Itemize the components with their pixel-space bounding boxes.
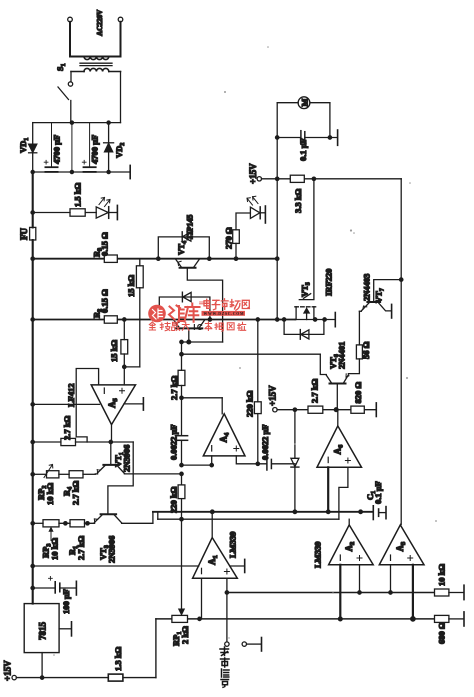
wire RP1 wiper <box>181 519 183 609</box>
wire A5 minus from rail <box>33 403 100 405</box>
svg-text:15 kΩ: 15 kΩ <box>126 275 136 297</box>
wire VT1 collector step to VT3 <box>108 442 133 514</box>
resistor 270 branch <box>233 213 251 259</box>
wire A3 plus down <box>412 565 414 619</box>
svg-text:FU: FU <box>19 228 29 240</box>
svg-text:TIP145: TIP145 <box>186 215 195 240</box>
resistor 2.7k A6 <box>308 406 323 413</box>
wire A4 minus input <box>182 456 212 465</box>
ground bar 7815 <box>71 622 73 636</box>
svg-text:0.1 μF: 0.1 μF <box>298 138 308 161</box>
svg-text:2.7 kΩ: 2.7 kΩ <box>71 481 81 505</box>
ground bar 820 <box>375 403 377 417</box>
svg-text:220 kΩ: 220 kΩ <box>169 486 179 513</box>
capacitor 100uF <box>33 576 76 593</box>
svg-text:LM339: LM339 <box>313 542 323 568</box>
watermark big chars WEI KU <box>169 304 200 322</box>
svg-text:1.3 kΩ: 1.3 kΩ <box>113 647 123 671</box>
wire top dc line <box>33 122 121 124</box>
op-amp A4 <box>203 414 245 456</box>
ground bar 100uF <box>75 581 77 595</box>
svg-text:+15V: +15V <box>248 163 258 184</box>
watermark red bar <box>202 311 246 316</box>
wire 56 up to VT7 <box>358 311 360 345</box>
watermark logo circle <box>148 299 249 332</box>
terminal aux <box>242 642 246 646</box>
wire line B <box>158 518 339 520</box>
svg-text:+15V: +15V <box>268 385 278 406</box>
transistor VT6 <box>320 354 359 410</box>
wire A3 minus down <box>390 565 392 593</box>
ground bar C1 <box>385 507 387 519</box>
svg-text:15 kΩ: 15 kΩ <box>109 340 119 362</box>
diode VD2 <box>104 123 114 172</box>
wire A1 output <box>211 512 213 538</box>
resistor R3 0.15 <box>104 255 117 262</box>
svg-text:100 μF: 100 μF <box>61 589 71 614</box>
svg-text:+15V: +15V <box>3 660 13 681</box>
svg-text:2N4401: 2N4401 <box>337 342 347 369</box>
op-amp A5 <box>91 385 135 425</box>
svg-text:220 kΩ: 220 kΩ <box>245 390 255 417</box>
wire A2 plus down <box>359 565 361 593</box>
transistor VT7 <box>359 280 401 312</box>
wire A5 output <box>111 425 113 442</box>
svg-text:2.7 kΩ: 2.7 kΩ <box>62 416 72 440</box>
LED2 <box>247 196 265 219</box>
wire A6 minus <box>327 467 329 512</box>
wire 10k to gnd <box>449 592 463 594</box>
svg-text:LM339: LM339 <box>228 532 238 558</box>
svg-text:1.5 kΩ: 1.5 kΩ <box>73 183 83 207</box>
resistor 15k #2 <box>121 320 128 385</box>
svg-text:2N4403: 2N4403 <box>362 274 372 301</box>
wire LED1 row <box>33 212 70 214</box>
svg-text:2N3906: 2N3906 <box>122 445 132 472</box>
svg-text:10 kΩ: 10 kΩ <box>45 483 55 505</box>
wire A6 output <box>337 410 339 426</box>
resistor 3.3k <box>290 175 304 182</box>
transistor VT1 <box>83 442 182 474</box>
wire A4 plus input <box>236 456 266 464</box>
resistor 680 <box>435 615 449 622</box>
wire A1 plus down <box>226 578 228 592</box>
svg-text:4700 μF: 4700 μF <box>52 135 62 164</box>
resistor 220k lower <box>178 474 185 519</box>
wire rail1 emitter bus <box>33 258 277 260</box>
diode loop VT4 <box>158 232 209 259</box>
wire A1 minus down <box>201 578 203 619</box>
resistor 820 <box>351 406 364 413</box>
resistor 2.7k mid <box>178 370 185 385</box>
svg-text:56 Ω: 56 Ω <box>361 341 371 359</box>
capacitor 0.0022uF #2 <box>267 458 295 470</box>
transistor VT2 <box>174 320 204 342</box>
svg-text:LF412: LF412 <box>66 383 76 407</box>
svg-text:2.7 kΩ: 2.7 kΩ <box>76 536 86 560</box>
regulator 7815 <box>24 604 59 653</box>
pot RP3 <box>33 520 59 541</box>
switch S1 <box>58 72 73 123</box>
wire 15k1 join <box>124 366 140 368</box>
pot RP2 <box>33 465 69 478</box>
terminal +15V bottom <box>12 675 16 679</box>
svg-text:2N3906: 2N3906 <box>107 536 117 563</box>
svg-text:10 kΩ: 10 kΩ <box>50 538 60 560</box>
svg-text:IC: IC <box>193 323 204 332</box>
ground bar top <box>129 165 131 178</box>
wire ground node line <box>33 171 130 173</box>
watermark small chars DIAN ZI SHI CHANG WANG <box>204 299 249 310</box>
wire A2 minus down <box>339 565 341 619</box>
wire A6 plus <box>339 467 348 519</box>
wire to A4 <box>182 386 223 414</box>
wire base bus vertical <box>182 342 321 370</box>
ground bar A5 <box>142 398 144 410</box>
ground bar LED1 <box>116 205 118 219</box>
wire A5 feedback <box>76 369 98 443</box>
wire bottom rail <box>16 677 156 679</box>
svg-text:0.15 Ω: 0.15 Ω <box>100 232 110 256</box>
ground bar A1 <box>244 559 246 572</box>
svg-text:M: M <box>300 98 310 106</box>
wire motor left vertical <box>276 103 278 179</box>
resistor 1.5k <box>70 209 85 216</box>
svg-text:820 Ω: 820 Ω <box>353 382 363 404</box>
wire left rail upper <box>32 172 34 227</box>
wire rail2 gate bus <box>33 319 295 321</box>
terminal +15V mid <box>273 408 277 412</box>
svg-text:0.0022 μF: 0.0022 μF <box>169 424 179 460</box>
op-amp A6 <box>317 426 362 467</box>
svg-text:680 Ω: 680 Ω <box>437 622 447 644</box>
mosfet VT5 <box>295 307 316 320</box>
svg-text:AC220V: AC220V <box>96 9 104 36</box>
terminal +15V top <box>257 177 261 181</box>
diode loop VT2 <box>159 292 210 319</box>
resistor R4 <box>69 471 83 478</box>
wire drain VT5 <box>299 179 314 300</box>
pot RP1 <box>172 615 188 622</box>
wire primary left <box>69 22 71 57</box>
capacitor 0.1uF motor <box>277 131 337 145</box>
motor M <box>277 97 330 138</box>
ground bar VT7 <box>391 304 393 318</box>
LED1 <box>85 198 117 219</box>
svg-text:4700 μF: 4700 μF <box>90 135 100 164</box>
fuse FU <box>30 227 36 240</box>
op-amp A2 <box>329 525 374 565</box>
transformer T1 <box>70 57 121 72</box>
diode VD1 <box>29 123 37 172</box>
svg-text:0.0022 μF: 0.0022 μF <box>260 424 270 460</box>
wire A2 output step <box>348 519 350 525</box>
svg-text:3.3 kΩ: 3.3 kΩ <box>293 189 303 213</box>
svg-text:2.7 kΩ: 2.7 kΩ <box>169 376 179 400</box>
svg-text:270 Ω: 270 Ω <box>224 227 234 249</box>
transistor VT4 <box>176 259 223 342</box>
svg-text:2 kΩ: 2 kΩ <box>180 626 190 644</box>
wire right rail <box>400 179 402 525</box>
capacitor C1 <box>373 506 385 520</box>
transformer T1 primary terminals <box>68 17 123 22</box>
wire source to ground <box>295 319 335 321</box>
svg-text:2.7 kΩ: 2.7 kΩ <box>310 379 320 403</box>
terminal control signal <box>225 593 229 647</box>
resistor 10k <box>435 589 449 596</box>
wire +15V mid rail <box>277 409 376 411</box>
capacitor C 4700uF #2 <box>82 123 95 172</box>
watermark slogan chars <box>149 322 245 331</box>
op-amp A3 <box>379 525 424 565</box>
ground bar VT5 <box>334 313 336 327</box>
node center tap <box>70 121 73 124</box>
op-amp A1 <box>193 538 238 579</box>
diode A4 branch <box>291 410 299 512</box>
resistor 2.7k A5 feedback <box>33 438 134 445</box>
svg-text:0.1 μF: 0.1 μF <box>373 481 383 504</box>
resistor 56 <box>356 345 362 359</box>
wire secondary right down <box>120 72 122 123</box>
label control signal (vector CJK glyphs) <box>220 647 229 687</box>
scan speckles <box>53 46 437 656</box>
capacitor C 4700uF #1 <box>44 123 57 172</box>
wire left rail main <box>32 240 34 604</box>
capacitor 0.0022uF #1 <box>175 398 187 465</box>
resistor 15k #1 <box>136 259 143 367</box>
wire 680 to gnd <box>449 618 463 620</box>
wire line A <box>153 511 373 513</box>
resistor 1.3k <box>108 674 123 681</box>
wire row 592 <box>227 592 435 594</box>
svg-text:IRF220: IRF220 <box>324 269 334 296</box>
resistor R2 0.15 <box>104 316 117 323</box>
wire 7815 gnd pin <box>59 628 71 630</box>
wire center tap down <box>71 123 73 172</box>
resistor 220k A4 <box>254 320 261 464</box>
protection diode loop VT5 <box>284 320 324 340</box>
wire A1 gnd row <box>33 565 244 567</box>
resistor R1 <box>70 520 85 527</box>
ground bar 10k <box>463 585 465 599</box>
wire 7815 out pin <box>41 653 43 678</box>
transistor VT3 <box>94 512 153 524</box>
wire riser to RP1 row <box>155 619 157 678</box>
wire row 619 <box>156 618 435 620</box>
svg-text:7815: 7815 <box>38 622 48 641</box>
wire +15V down to rails <box>276 179 278 320</box>
ground bar aux <box>261 638 263 652</box>
svg-text:10 kΩ: 10 kΩ <box>437 564 447 586</box>
wire +15V top rail <box>262 178 402 180</box>
svg-text:WWW.DZSC.COM: WWW.DZSC.COM <box>204 312 245 316</box>
ground bar motor cap <box>337 130 339 145</box>
ground bar 680 <box>463 612 465 626</box>
wire A5 gnd <box>124 403 143 405</box>
ground bar LED2 <box>264 206 266 223</box>
svg-text:0.15 Ω: 0.15 Ω <box>100 289 110 313</box>
wire primary right <box>120 22 122 57</box>
